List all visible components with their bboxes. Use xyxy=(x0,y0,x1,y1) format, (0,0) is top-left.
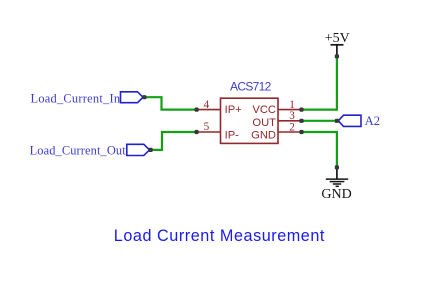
svg-text:ACS712: ACS712 xyxy=(230,80,272,94)
svg-text:1: 1 xyxy=(289,99,295,111)
junction at Load_Current_Out port xyxy=(149,148,153,152)
svg-text:GND: GND xyxy=(321,187,351,202)
wire pin 3 to port A2 xyxy=(302,120,339,122)
wire pin 1 to +5V xyxy=(302,56,337,109)
port A2 xyxy=(338,114,380,128)
junction at pin 4 xyxy=(195,108,199,112)
junction at Load_Current_In port xyxy=(142,95,146,99)
port Load_Current_In xyxy=(31,91,143,105)
junction at GND xyxy=(335,165,339,169)
svg-text:VCC: VCC xyxy=(252,104,276,116)
pin 2 GND xyxy=(251,121,301,141)
svg-text:A2: A2 xyxy=(365,114,380,128)
junction at pin 5 xyxy=(195,130,199,134)
svg-text:OUT: OUT xyxy=(252,117,276,129)
pin 5 IP- xyxy=(197,121,240,141)
junction at pin 3 xyxy=(299,119,303,123)
port Load_Current_Out xyxy=(30,143,150,157)
pin 4 IP+ xyxy=(197,99,242,116)
svg-text:Load_Current_In: Load_Current_In xyxy=(31,91,121,105)
svg-text:4: 4 xyxy=(204,99,210,111)
svg-text:IP-: IP- xyxy=(225,129,240,141)
wire from Load_Current_Out to pin 5 xyxy=(150,132,197,150)
wire pin 2 to GND xyxy=(302,132,337,167)
svg-text:Load Current Measurement: Load Current Measurement xyxy=(114,227,325,245)
power +5V xyxy=(325,31,350,56)
junction at pin 1 xyxy=(299,108,303,112)
junction at A2 port xyxy=(335,119,339,123)
junction at pin 2 xyxy=(299,130,303,134)
junction at +5V xyxy=(335,54,339,58)
svg-text:2: 2 xyxy=(289,121,295,133)
svg-text:Load_Current_Out: Load_Current_Out xyxy=(30,143,127,157)
svg-text:3: 3 xyxy=(289,110,295,122)
svg-text:5: 5 xyxy=(204,121,210,133)
wire from Load_Current_In to pin 4 xyxy=(143,97,197,109)
IC ACS712 body xyxy=(221,98,279,143)
pin 1 VCC xyxy=(252,99,301,116)
svg-text:+5V: +5V xyxy=(325,31,350,46)
pin 3 OUT xyxy=(252,110,301,129)
svg-text:GND: GND xyxy=(251,129,276,141)
ground GND xyxy=(321,167,351,202)
svg-text:IP+: IP+ xyxy=(225,104,242,116)
